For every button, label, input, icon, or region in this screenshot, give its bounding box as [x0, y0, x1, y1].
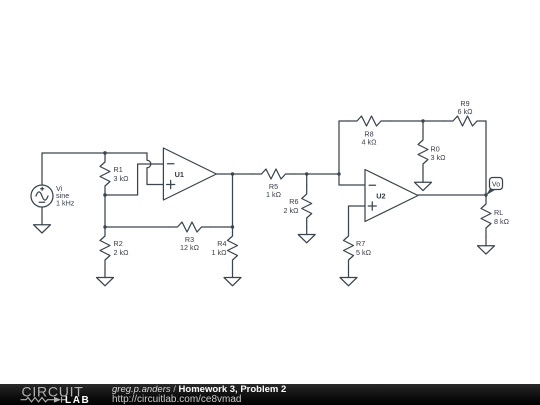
- resistor R2: [100, 227, 110, 269]
- junction R1 bottom: [103, 193, 106, 196]
- svg-text:U2: U2: [376, 191, 385, 200]
- svg-text:LAB: LAB: [65, 395, 90, 405]
- wire: R2 to ground: [104, 269, 106, 278]
- node: R1 bottom junction: [103, 193, 106, 196]
- svg-text:2 kΩ: 2 kΩ: [284, 206, 300, 215]
- node Vo: flag tail: [486, 189, 496, 196]
- wire: R8 to R9: [390, 120, 444, 122]
- junction R0 tap: [421, 119, 424, 122]
- node Vo: flag: [490, 178, 503, 190]
- svg-text:RL: RL: [494, 208, 503, 217]
- node: R1 top junction: [103, 151, 106, 154]
- svg-text:Vo: Vo: [492, 182, 500, 189]
- svg-text:U1: U1: [175, 170, 184, 179]
- junction R1 top: [103, 151, 106, 154]
- resistor R1: [100, 153, 110, 195]
- wire: R0 top lead: [422, 121, 424, 131]
- ground below R2: [97, 278, 114, 286]
- junction R2/R3: [103, 225, 106, 228]
- ground below RL: [478, 246, 495, 254]
- wire: U1 output to R5: [216, 173, 252, 175]
- svg-text:8 kΩ: 8 kΩ: [494, 217, 510, 226]
- junction R3/R4: [231, 225, 234, 228]
- svg-text:4 kΩ: 4 kΩ: [362, 137, 378, 146]
- ground below R6: [298, 235, 315, 243]
- svg-text:R4: R4: [217, 239, 226, 248]
- resistor R4: [228, 227, 238, 269]
- wire: R9 down to output node: [485, 121, 487, 195]
- junction output: [484, 193, 487, 196]
- svg-text:R1: R1: [114, 165, 123, 174]
- resistor R6: [302, 185, 312, 227]
- svg-text:3 kΩ: 3 kΩ: [114, 174, 130, 183]
- resistor R7: [344, 227, 354, 269]
- resistor R9: [444, 116, 486, 126]
- logo wire with resistor and diode: [21, 397, 68, 403]
- ground below Vi: [34, 225, 51, 233]
- wire: R5 to U2 branch node: [295, 173, 340, 175]
- logo diode triangle: [54, 397, 61, 403]
- svg-text:2 kΩ: 2 kΩ: [114, 248, 130, 257]
- wire: R0 to ground: [422, 173, 424, 182]
- svg-text:1 kHz: 1 kHz: [56, 199, 75, 208]
- CircuitLab logo: [0, 384, 110, 405]
- resistor RL: [481, 195, 491, 237]
- svg-text:6 kΩ: 6 kΩ: [458, 107, 474, 116]
- resistor R5: [253, 169, 295, 179]
- svg-text:5 kΩ: 5 kΩ: [356, 248, 372, 257]
- footer text: [112, 385, 540, 405]
- ground below R0: [415, 182, 432, 190]
- resistor R0: [418, 131, 428, 173]
- wire: R4 to ground: [232, 269, 234, 278]
- wire: feedback column into U2 - input: [339, 121, 365, 185]
- svg-text:3 kΩ: 3 kΩ: [431, 153, 447, 162]
- svg-text:1 kΩ: 1 kΩ: [212, 248, 228, 257]
- junction U1 out: [231, 172, 234, 175]
- svg-text:R2: R2: [114, 239, 123, 248]
- resistor R3: [169, 222, 211, 232]
- ground below R7: [340, 278, 357, 286]
- svg-text:R7: R7: [356, 239, 365, 248]
- svg-text:12 kΩ: 12 kΩ: [180, 243, 200, 252]
- wire: U2 + input to R7: [349, 206, 366, 227]
- op-amp U2: [365, 170, 418, 222]
- wire: R6 branch down: [306, 174, 308, 185]
- voltage source Vi: [31, 185, 53, 207]
- op-amp U1: [163, 148, 216, 200]
- wire: R6 to ground: [306, 227, 308, 235]
- wire: R8 left lead rail: [339, 120, 348, 122]
- resistor R8: [348, 116, 390, 126]
- wire: output node down to bottom rail: [232, 174, 234, 227]
- svg-text:R6: R6: [289, 197, 298, 206]
- junction R6 tap: [305, 172, 308, 175]
- footer bar: [0, 384, 540, 405]
- wire: R1 bottom to U1 - input: [105, 164, 163, 195]
- svg-text:1 kΩ: 1 kΩ: [266, 190, 282, 199]
- wire: top rail from Vi to U1 jog: [42, 152, 147, 154]
- wire: bottom rail: [105, 226, 233, 228]
- wire: Vi bottom to ground: [41, 207, 43, 225]
- wire: U2 output rail: [418, 194, 486, 196]
- wire: R1 bottom down to bottom rail: [104, 195, 106, 227]
- ground below R4: [224, 278, 241, 286]
- wire: R7 to ground: [348, 269, 350, 278]
- wire: RL to ground: [485, 237, 487, 246]
- junction U2 branch: [337, 172, 340, 175]
- wire: Vi top vertical: [41, 153, 43, 185]
- wire: jog down with hop over minus wire, into U1 + input: [147, 153, 163, 185]
